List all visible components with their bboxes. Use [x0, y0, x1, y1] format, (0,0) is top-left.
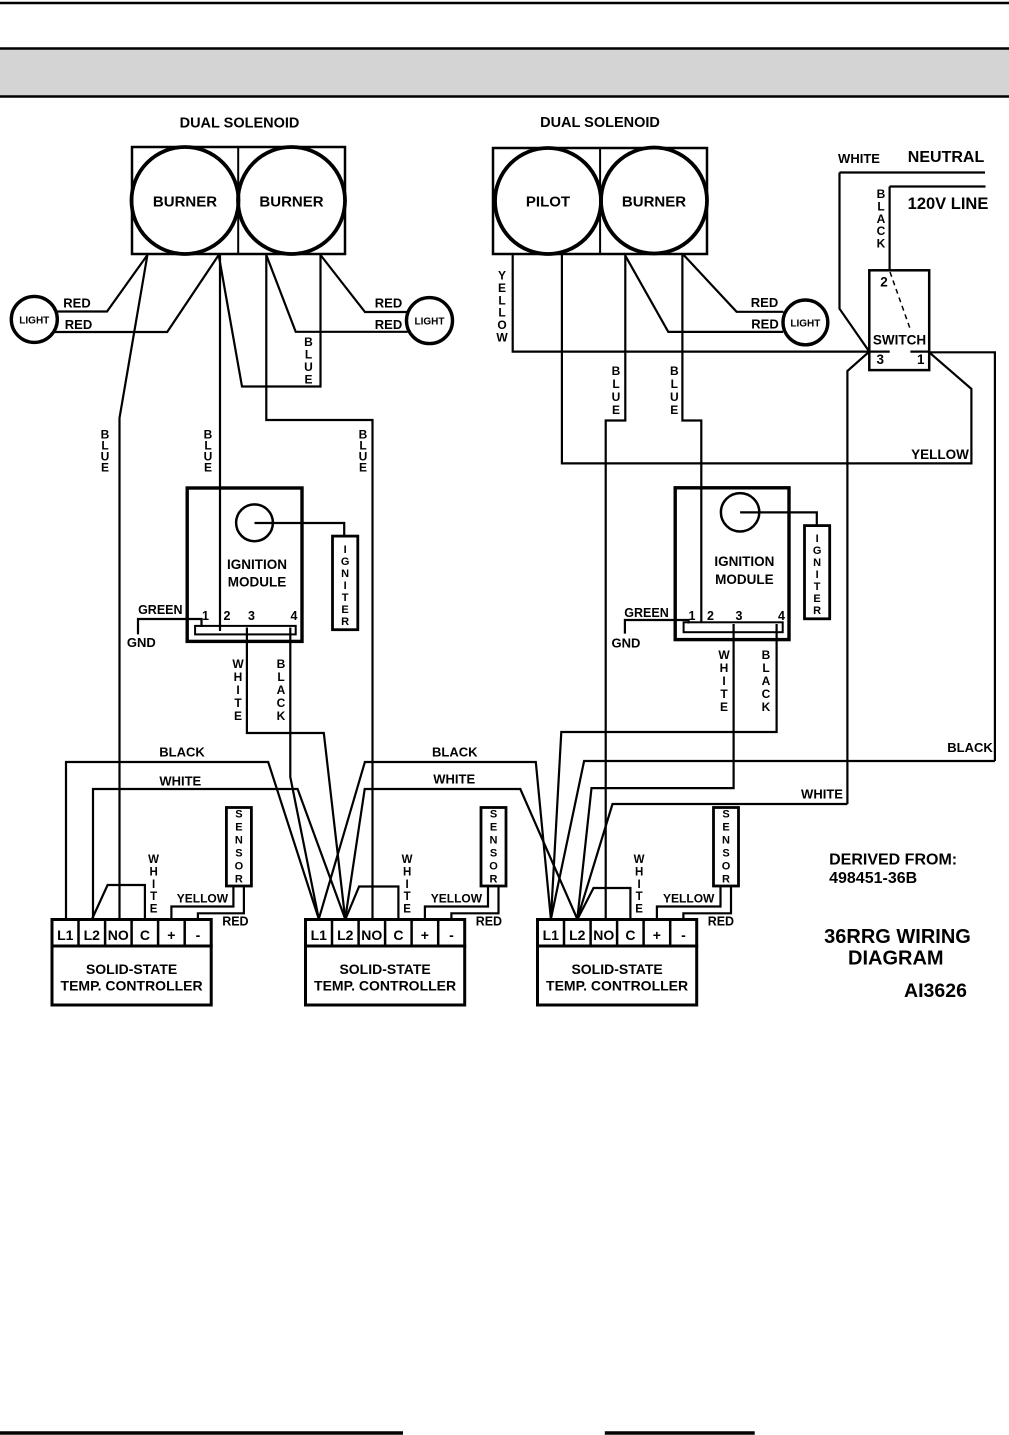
svg-text:RED: RED [65, 317, 92, 332]
svg-text:-: - [449, 927, 454, 943]
svg-text:I: I [722, 674, 725, 688]
svg-text:T: T [404, 891, 411, 903]
wire blue solenoid B3 to ignition module U2 pin 2 [682, 254, 701, 622]
svg-text:S: S [235, 848, 242, 860]
wire blue solenoid coil loop [219, 254, 321, 387]
page top rule [0, 2, 1009, 5]
svg-text:SOLID-STATE: SOLID-STATE [571, 961, 662, 977]
label RED (DS3 lower) [751, 317, 778, 332]
pin 2 label S1 [880, 274, 888, 289]
temp controller body (middle) [306, 946, 465, 1005]
svg-text:NO: NO [361, 927, 382, 943]
svg-text:WHITE: WHITE [838, 151, 880, 166]
svg-text:+: + [167, 927, 175, 943]
wire black switch terminal 1 to black bus [929, 352, 995, 761]
pin 4 label U2 [778, 609, 785, 623]
pin 3 label U1 [248, 609, 255, 623]
svg-text:E: E [670, 403, 678, 417]
svg-text:I: I [816, 569, 819, 581]
svg-text:I: I [344, 580, 347, 592]
svg-text:L2: L2 [569, 927, 586, 943]
wire white jumper C to L2 (middle) [345, 887, 398, 920]
label 120V LINE [908, 195, 989, 213]
wire blue solenoid B1 to NO terminal (left controller) [120, 255, 148, 919]
svg-text:E: E [403, 904, 411, 916]
svg-text:S: S [490, 848, 497, 860]
label WHITE (neutral) [838, 151, 880, 166]
svg-text:L1: L1 [57, 927, 74, 943]
svg-text:B: B [670, 364, 679, 378]
svg-text:BLACK: BLACK [159, 745, 205, 760]
svg-text:K: K [277, 709, 286, 723]
terminal strip U1 [195, 626, 296, 635]
svg-text:W: W [232, 657, 244, 671]
page bottom rule left [0, 1431, 403, 1435]
svg-text:GREEN: GREEN [138, 603, 182, 617]
ignition module U2 (right) [675, 488, 789, 640]
svg-text:GND: GND [611, 635, 640, 650]
svg-text:120V LINE: 120V LINE [908, 195, 989, 213]
pin 4 label U1 [291, 609, 298, 623]
wire red sensor to - terminal (middle) [451, 886, 498, 920]
switch blade (dashed) [890, 272, 910, 330]
note DERIVED FROM [829, 852, 957, 888]
svg-text:+: + [421, 927, 429, 943]
temp controller body (right) [538, 946, 697, 1005]
svg-text:IGNITION: IGNITION [227, 557, 287, 572]
wire yellow sensor to + terminal (right) [657, 886, 721, 920]
svg-text:RED: RED [751, 295, 778, 310]
svg-text:3: 3 [736, 609, 743, 623]
svg-text:1: 1 [202, 609, 209, 623]
label BLACK (120V wire) [877, 187, 886, 251]
sensor RTD (middle) [481, 808, 506, 887]
dual solenoid box (left) [132, 147, 345, 254]
label BLUE (left wire 3) [359, 428, 368, 475]
svg-text:NEUTRAL: NEUTRAL [908, 149, 985, 166]
svg-text:3: 3 [876, 352, 884, 367]
svg-text:T: T [814, 581, 821, 593]
svg-text:L: L [612, 377, 619, 391]
svg-text:H: H [234, 670, 243, 684]
svg-text:TEMP. CONTROLLER: TEMP. CONTROLLER [314, 978, 456, 994]
svg-text:YELLOW: YELLOW [911, 447, 969, 462]
svg-text:W: W [496, 331, 508, 345]
svg-text:T: T [720, 687, 728, 701]
svg-text:PILOT: PILOT [526, 194, 570, 211]
wire red DS1 lower [55, 255, 219, 332]
svg-text:YELLOW: YELLOW [663, 891, 715, 905]
svg-text:C: C [762, 687, 771, 701]
wire white jumper C to L2 (left) [92, 885, 145, 920]
svg-text:E: E [490, 822, 497, 834]
svg-text:E: E [150, 904, 158, 916]
svg-text:S: S [722, 848, 729, 860]
svg-text:DIAGRAM: DIAGRAM [848, 948, 944, 970]
svg-text:S: S [722, 809, 729, 821]
wire black U2 pin 4 to L1 right controller [551, 624, 777, 919]
svg-text:B: B [612, 364, 621, 378]
pin 1 stub S1 [910, 351, 929, 353]
svg-text:R: R [813, 605, 821, 617]
wire green U1 pin 1 to ground [138, 619, 202, 634]
svg-text:RED: RED [63, 296, 90, 311]
svg-text:DUAL SOLENOID: DUAL SOLENOID [180, 116, 300, 132]
svg-text:GREEN: GREEN [624, 606, 668, 620]
label RED (sensor left) [222, 915, 248, 929]
wire black bus right segment [551, 761, 995, 919]
svg-text:S: S [235, 809, 242, 821]
spark coil symbol U1 [236, 504, 273, 541]
label WHITE (middle bus) [433, 771, 475, 786]
svg-text:SOLID-STATE: SOLID-STATE [339, 961, 430, 977]
svg-text:A: A [277, 683, 286, 697]
svg-text:L: L [671, 377, 678, 391]
svg-text:N: N [722, 835, 730, 847]
svg-text:T: T [234, 696, 242, 710]
svg-text:K: K [762, 700, 771, 714]
svg-text:O: O [489, 861, 498, 873]
svg-text:L2: L2 [84, 927, 101, 943]
svg-text:E: E [635, 904, 643, 916]
label WHITE (U2 pin 3 wire) [718, 648, 730, 714]
wire red DS2 upper [321, 255, 408, 312]
svg-text:K: K [877, 237, 886, 251]
wire black U1 pin 4 to L1 middle controller [290, 628, 319, 920]
temp controller terminal row (middle) [306, 920, 465, 947]
label WHITE (jumper middle) [402, 854, 413, 916]
svg-text:3: 3 [248, 609, 255, 623]
pilot solenoid [495, 148, 601, 254]
wire U1 spark output to igniter [255, 523, 345, 536]
svg-text:C: C [625, 927, 635, 943]
svg-text:AI3626: AI3626 [904, 980, 967, 1002]
svg-text:I: I [816, 533, 819, 545]
switch S1 [869, 270, 929, 370]
wire red DS2 lower [266, 255, 408, 332]
svg-text:36RRG WIRING: 36RRG WIRING [824, 926, 971, 948]
svg-text:R: R [235, 874, 243, 886]
svg-text:YELLOW: YELLOW [177, 891, 229, 905]
svg-text:T: T [636, 891, 643, 903]
label GREEN (U1) [138, 603, 182, 617]
label BLACK (U2 pin 4 wire) [762, 648, 771, 714]
svg-text:TEMP. CONTROLLER: TEMP. CONTROLLER [546, 978, 688, 994]
pin 3 stub S1 [869, 351, 889, 353]
wire black bus middle segment [319, 762, 551, 919]
svg-text:RED: RED [222, 915, 248, 929]
label YELLOW (sensor right) [663, 891, 715, 905]
indicator light DS2 [407, 298, 453, 344]
svg-text:E: E [204, 461, 212, 475]
pin 1 label U1 [202, 609, 209, 623]
svg-text:E: E [720, 700, 728, 714]
wire red sensor to - terminal (right) [683, 886, 731, 920]
svg-text:DERIVED FROM:: DERIVED FROM: [829, 852, 957, 869]
svg-text:H: H [403, 866, 411, 878]
label WHITE (jumper left) [148, 854, 159, 916]
svg-text:I: I [405, 879, 408, 891]
label BLACK (middle bus) [432, 744, 478, 759]
svg-text:N: N [813, 557, 821, 569]
svg-text:G: G [813, 545, 822, 557]
wire white bus right segment [577, 804, 847, 919]
label RED (DS1 lower) [65, 317, 92, 332]
svg-text:SWITCH: SWITCH [873, 333, 926, 348]
svg-text:R: R [341, 616, 349, 628]
wire blue solenoid B3 to NO terminal (right controller) [606, 254, 626, 919]
svg-text:C: C [277, 696, 286, 710]
svg-text:W: W [718, 648, 730, 662]
gray header band [0, 48, 1009, 97]
svg-text:O: O [235, 861, 244, 873]
svg-text:A: A [762, 674, 771, 688]
label NEUTRAL [908, 149, 985, 166]
svg-text:BURNER: BURNER [622, 194, 686, 211]
temp controller terminal row (right) [538, 920, 697, 947]
svg-text:MODULE: MODULE [228, 575, 287, 590]
svg-text:O: O [722, 861, 731, 873]
svg-text:BURNER: BURNER [153, 194, 217, 211]
label RED (sensor middle) [476, 915, 502, 929]
svg-text:W: W [402, 854, 413, 866]
wire U2 spark output to igniter [740, 512, 817, 525]
label DUAL SOLENOID (right) [540, 115, 660, 131]
svg-text:N: N [490, 835, 498, 847]
wire yellow pilot to switch terminal 1 [562, 254, 972, 463]
svg-text:E: E [722, 822, 729, 834]
wire white bus middle segment [345, 789, 577, 919]
svg-text:U: U [612, 390, 621, 404]
svg-text:I: I [344, 544, 347, 556]
pin 3 label S1 [876, 352, 884, 367]
pin 2 label U2 [707, 609, 714, 623]
svg-text:G: G [341, 556, 350, 568]
svg-text:E: E [359, 461, 367, 475]
svg-text:L: L [277, 670, 284, 684]
label RED (DS2 upper) [375, 296, 402, 311]
wire red DS3 lower [625, 256, 783, 332]
wire blue solenoid B2 to NO terminal (middle controller) [266, 254, 372, 919]
wire white bus left segment [93, 789, 345, 919]
wire white neutral drop to switch terminal 3 [840, 173, 870, 352]
pin 2 label U1 [224, 609, 231, 623]
svg-text:YELLOW: YELLOW [431, 891, 483, 905]
svg-text:L: L [762, 661, 769, 675]
svg-text:MODULE: MODULE [715, 572, 774, 587]
svg-text:N: N [341, 568, 349, 580]
svg-text:1: 1 [917, 352, 925, 367]
svg-text:-: - [681, 927, 686, 943]
svg-text:B: B [277, 657, 286, 671]
wire red DS1 upper [56, 255, 148, 312]
svg-text:I: I [236, 683, 239, 697]
svg-text:DUAL SOLENOID: DUAL SOLENOID [540, 115, 660, 131]
svg-text:T: T [342, 592, 349, 604]
label YELLOW (sensor left) [177, 891, 229, 905]
svg-text:E: E [304, 373, 312, 387]
label GREEN (U2) [624, 606, 668, 620]
wire red sensor to - terminal (left) [198, 886, 244, 920]
label BLUE (coil loop wire) [304, 335, 313, 387]
svg-text:2: 2 [880, 274, 888, 289]
dual solenoid box (right) [493, 148, 707, 254]
page bottom rule right [605, 1431, 755, 1435]
pin 1 label U2 [689, 609, 696, 623]
label DUAL SOLENOID (left) [180, 116, 300, 132]
burner solenoid B3 [601, 148, 707, 254]
svg-text:RED: RED [476, 915, 502, 929]
svg-text:+: + [653, 927, 661, 943]
svg-text:LIGHT: LIGHT [415, 317, 445, 328]
svg-text:2: 2 [224, 609, 231, 623]
svg-text:RED: RED [708, 915, 734, 929]
indicator light DS1 (left) [11, 296, 57, 342]
label BLACK (U1 pin 4 wire) [277, 657, 286, 723]
svg-text:WHITE: WHITE [159, 774, 201, 789]
svg-text:2: 2 [707, 609, 714, 623]
wire black bus left segment [66, 762, 319, 919]
wire red DS3 upper [684, 255, 784, 312]
label BLUE (right wire 2) [670, 364, 679, 417]
label BLUE (left wire 2) [204, 428, 213, 475]
igniter E1 (left) [333, 536, 358, 630]
label YELLOW (switch wire) [911, 447, 969, 462]
wire yellow sensor to + terminal (left) [171, 886, 233, 920]
ground GND (right) [611, 635, 640, 650]
pin 1 label S1 [917, 352, 925, 367]
spark coil symbol U2 [721, 493, 759, 531]
svg-text:L2: L2 [337, 927, 354, 943]
svg-text:WHITE: WHITE [801, 787, 843, 802]
svg-text:W: W [634, 854, 645, 866]
svg-text:498451-36B: 498451-36B [829, 870, 917, 887]
igniter E2 (right) [805, 526, 830, 619]
label RED (DS3 upper) [751, 295, 778, 310]
sensor RTD (right) [714, 808, 739, 887]
svg-text:E: E [612, 403, 620, 417]
svg-text:H: H [635, 866, 643, 878]
label WHITE (U1 pin 3 wire) [232, 657, 244, 723]
svg-text:RED: RED [375, 317, 402, 332]
svg-text:E: E [341, 604, 348, 616]
svg-text:C: C [393, 927, 403, 943]
svg-text:RED: RED [375, 296, 402, 311]
wire yellow sensor to + terminal (middle) [425, 886, 488, 920]
temp controller terminal row (left) [52, 920, 211, 947]
label YELLOW (sensor middle) [431, 891, 483, 905]
svg-text:T: T [150, 891, 157, 903]
svg-text:-: - [196, 927, 201, 943]
svg-text:NO: NO [593, 927, 614, 943]
drawing number AI3626 [904, 980, 967, 1002]
svg-text:LIGHT: LIGHT [19, 316, 49, 327]
svg-text:H: H [720, 661, 729, 675]
svg-text:LIGHT: LIGHT [790, 319, 820, 330]
indicator light DS3 [783, 300, 828, 345]
label BLACK (right bus) [947, 740, 993, 755]
wire neutral line [840, 171, 986, 173]
label RED (DS1 upper) [63, 296, 90, 311]
label RED (sensor right) [708, 915, 734, 929]
svg-text:L1: L1 [311, 927, 328, 943]
wire black 120V drop to switch terminal 2 [888, 187, 890, 271]
svg-text:E: E [235, 822, 242, 834]
label RED (DS2 lower) [375, 317, 402, 332]
svg-text:E: E [101, 461, 109, 475]
ground GND (left) [127, 635, 156, 650]
svg-text:U: U [670, 390, 679, 404]
label BLUE (right wire 1) [612, 364, 621, 417]
wire white switch terminal 3 to white bus [847, 352, 869, 804]
label YELLOW (pilot wire) [496, 269, 508, 345]
burner solenoid B1 [132, 147, 239, 254]
wire white jumper C to L2 (right) [577, 888, 630, 920]
svg-text:E: E [813, 593, 820, 605]
label WHITE (right bus) [801, 787, 843, 802]
label BLUE (left wire 1) [101, 428, 110, 475]
wire blue solenoid B1 to ignition module pin 2 [219, 254, 221, 631]
svg-text:I: I [152, 879, 155, 891]
wire white U2 pin 3 to L2 right controller [577, 624, 733, 919]
svg-text:R: R [490, 874, 498, 886]
svg-text:GND: GND [127, 635, 156, 650]
svg-text:H: H [149, 866, 157, 878]
svg-text:L1: L1 [543, 927, 560, 943]
ignition module U1 (left) [187, 488, 302, 641]
svg-text:I: I [637, 879, 640, 891]
svg-text:N: N [235, 835, 243, 847]
svg-text:IGNITION: IGNITION [714, 554, 774, 569]
svg-text:NO: NO [108, 927, 129, 943]
wire yellow pilot to switch terminal 3 [513, 254, 870, 352]
svg-text:BURNER: BURNER [259, 194, 323, 211]
label WHITE (left bus) [159, 774, 201, 789]
svg-text:C: C [140, 927, 150, 943]
sensor RTD (left) [226, 808, 251, 887]
svg-text:4: 4 [778, 609, 785, 623]
pin 3 label U2 [736, 609, 743, 623]
svg-text:TEMP. CONTROLLER: TEMP. CONTROLLER [61, 978, 203, 994]
label WHITE (jumper right) [634, 854, 645, 916]
svg-text:BLACK: BLACK [432, 744, 478, 759]
svg-text:S: S [490, 809, 497, 821]
wire white U1 pin 3 to L2 middle controller [247, 628, 345, 920]
wire 120V line [890, 185, 986, 187]
svg-text:R: R [722, 874, 730, 886]
svg-text:B: B [762, 648, 771, 662]
title 36RRG WIRING DIAGRAM [824, 926, 971, 970]
burner solenoid B2 [238, 147, 345, 254]
label BLACK (left bus) [159, 745, 205, 760]
wire green U2 pin 1 to ground [625, 620, 689, 634]
svg-text:4: 4 [291, 609, 298, 623]
terminal strip U2 [684, 622, 783, 632]
svg-text:BLACK: BLACK [947, 740, 993, 755]
svg-text:W: W [148, 854, 159, 866]
svg-text:WHITE: WHITE [433, 771, 475, 786]
svg-text:RED: RED [751, 317, 778, 332]
svg-text:SOLID-STATE: SOLID-STATE [86, 961, 177, 977]
temp controller body (left) [52, 946, 211, 1005]
svg-text:E: E [234, 709, 242, 723]
